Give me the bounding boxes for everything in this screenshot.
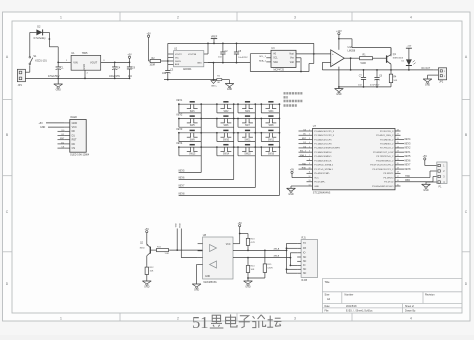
svg-text:510R: 510R [361, 63, 367, 65]
wire opamp V- to gnd [338, 67, 340, 89]
svg-text:18: 18 [397, 172, 399, 174]
switch SW16 [260, 145, 280, 156]
svg-text:8: 8 [309, 159, 310, 161]
wire U3 A0 to gnd rail [250, 54, 271, 72]
svg-text:MCP4725: MCP4725 [274, 68, 285, 71]
svg-text:+5V: +5V [145, 228, 150, 231]
svg-text:P1.6/RxD_3/XTAL2: P1.6/RxD_3/XTAL2 [314, 164, 334, 167]
switch SW15 [237, 145, 256, 156]
svg-text:SW15: SW15 [244, 154, 251, 156]
svg-text:8550: 8550 [140, 248, 146, 250]
watermark hei [210, 315, 224, 328]
svg-text:GND: GND [227, 88, 233, 91]
svg-text:10K: 10K [150, 271, 154, 273]
capacitor C3 106 [162, 67, 174, 80]
svg-text:ADR391: ADR391 [183, 68, 192, 71]
svg-text:GND: GND [144, 286, 150, 289]
zone dividers top strip [120, 12, 352, 21]
svg-text:13: 13 [309, 180, 311, 182]
switch SW10 [216, 130, 235, 141]
ground (U8) [192, 284, 201, 292]
transistor Q1 MJE13003 [374, 48, 404, 70]
svg-text:ADR: ADR [175, 63, 180, 66]
svg-text:KEY2: KEY2 [405, 148, 412, 150]
svg-text:KEY3: KEY3 [177, 129, 184, 131]
svg-text:P1.2/ADC2/SS/ECI/CMPO: P1.2/ADC2/SS/ECI/CMPO [314, 147, 340, 150]
svg-text:P1.5/ADC5/SCLK: P1.5/ADC5/SCLK [314, 159, 332, 162]
svg-text:-: - [332, 61, 333, 65]
switch SW9 [178, 130, 202, 141]
svg-text:SW6: SW6 [223, 125, 229, 127]
svg-text:SW8: SW8 [268, 125, 274, 127]
switch SW5 [178, 116, 202, 127]
wire D2 to C1/U1 node [43, 32, 59, 62]
net labels mcu left [299, 130, 307, 170]
svg-text:RXD: RXD [302, 168, 307, 170]
lower rail (ref gnd) [208, 62, 250, 64]
zone dividers bottom strip [120, 313, 352, 321]
capacitor C5 10uF/25V [234, 43, 248, 63]
bottom rail (output filter gnd) [339, 86, 391, 88]
svg-text:MAX485CPA: MAX485CPA [204, 281, 218, 284]
wire keypad column 3 [179, 104, 256, 187]
svg-text:SW2: SW2 [223, 111, 229, 113]
switch SW7 [237, 116, 256, 127]
reference U2 ADR391 [174, 48, 204, 71]
wire P1 pin4 to gnd [426, 182, 437, 184]
svg-text:SCL: SCL [273, 58, 278, 60]
wire U1 GND pin to bottom rail [84, 70, 86, 78]
svg-text:Drawn By:: Drawn By: [405, 310, 416, 313]
svg-text:P2.5/MOSI_2: P2.5/MOSI_2 [380, 139, 394, 141]
svg-text:GND+: GND+ [211, 85, 218, 87]
wire U8 gnd pin [197, 264, 198, 284]
resistor R13 4.7K [240, 234, 256, 251]
wire keypad column 4 [179, 104, 280, 195]
svg-text:DC: DC [72, 143, 76, 146]
svg-text:24: 24 [397, 146, 399, 148]
wire keypad column 2 [179, 104, 234, 179]
svg-text:VOUT3B: VOUT3B [188, 54, 197, 56]
switch SW6 [216, 116, 235, 127]
svg-text:SW1: SW1 [190, 111, 196, 113]
svg-text:D Schottky: D Schottky [34, 37, 47, 40]
svg-text:+12V: +12V [407, 46, 412, 48]
svg-text:+5V: +5V [127, 54, 132, 57]
capacitor C6 47uF/25V [370, 70, 383, 87]
svg-text:P3.5/T1/CLKO/CCP0_2: P3.5/T1/CLKO/CCP0_2 [370, 165, 394, 167]
svg-text:Vout: Vout [289, 53, 294, 56]
wire RXD drop [180, 223, 198, 258]
svg-text:P3.4/T0/ECI/CCP1_2: P3.4/T0/ECI/CCP1_2 [373, 169, 395, 171]
switch SW11 [237, 130, 256, 141]
svg-text:RX: RX [303, 248, 307, 250]
svg-text:RJ45: RJ45 [302, 279, 308, 282]
wire vref-rail drop to gnd rail [309, 43, 314, 71]
ground (power input) [54, 78, 63, 91]
svg-text:RST: RST [72, 139, 77, 142]
wire +12V rail to Q1 collector [339, 39, 391, 56]
op-amp U4A LM358 [331, 46, 356, 67]
wire 485-B [233, 256, 291, 259]
svg-text:17: 17 [397, 176, 399, 178]
net labels OLED data [58, 130, 66, 149]
svg-text:6: 6 [309, 151, 310, 153]
svg-text:28: 28 [397, 129, 399, 131]
power +5V (U8) [233, 222, 242, 244]
svg-text:10uF/25V: 10uF/25V [238, 57, 248, 59]
svg-text:GND: GND [205, 276, 210, 278]
transceiver U8 MAX485CPA [198, 234, 233, 284]
watermark tan [267, 316, 281, 328]
switch SW2 [216, 102, 235, 113]
svg-text:SW5: SW5 [190, 125, 196, 127]
svg-text:RXD: RXD [180, 223, 182, 228]
svg-text:SW7: SW7 [245, 125, 251, 127]
svg-text:10K: 10K [251, 269, 255, 271]
wire keypad row 3 [178, 132, 279, 134]
connector JP1 [17, 69, 25, 87]
capacitor C1 470uF/50V [48, 62, 64, 78]
wire keypad row 1 [178, 103, 279, 105]
wire U2 VOUT pin up to rail [204, 43, 209, 55]
svg-text:Sheet of: Sheet of [405, 305, 414, 308]
switch S1 KCD1-101 [29, 55, 47, 65]
svg-text:SW12: SW12 [268, 139, 275, 141]
svg-text:RJ1: RJ1 [302, 236, 307, 239]
zone dividers right strip [462, 100, 470, 252]
svg-text:2021/5/18: 2021/5/18 [346, 305, 357, 308]
svg-text:KEY1: KEY1 [405, 152, 412, 154]
svg-text:SDA_1: SDA_1 [300, 154, 307, 157]
diode D1 [401, 59, 415, 70]
svg-text:20: 20 [397, 163, 399, 165]
svg-text:NC: NC [303, 261, 307, 263]
svg-text:GND: GND [425, 84, 431, 87]
svg-text:P3.1/TxD: P3.1/TxD [384, 182, 394, 184]
svg-text:P5.4/RST/CMP-: P5.4/RST/CMP- [314, 173, 330, 175]
wire U1 VOUT to +5V rail [101, 61, 130, 63]
title block texts [325, 280, 436, 312]
svg-text:2: 2 [177, 15, 179, 19]
svg-text:KEY4: KEY4 [405, 139, 412, 141]
capacitor C9 104 [127, 62, 136, 79]
switch SW3 [237, 102, 256, 113]
switch SW4 [260, 102, 280, 113]
switch SW13 [178, 145, 202, 156]
ground (JP2) [423, 79, 432, 87]
svg-text:485-A: 485-A [274, 247, 280, 250]
svg-text:GND: GND [245, 286, 251, 289]
annotation chinese note [284, 93, 303, 105]
svg-text:P1.3/ADC3/MOSI: P1.3/ADC3/MOSI [314, 151, 332, 154]
diode D2 D Schottky [34, 26, 47, 41]
mcu U7 STC15W404AS [313, 125, 396, 194]
svg-text:SHDN: SHDN [175, 61, 181, 63]
svg-text:P3.6/INT2/RxD_2: P3.6/INT2/RxD_2 [376, 160, 394, 162]
svg-text:SW11: SW11 [245, 139, 252, 141]
svg-text:22: 22 [397, 155, 399, 157]
svg-text:P2.6/MISO_2: P2.6/MISO_2 [380, 143, 394, 145]
svg-text:KEY8: KEY8 [405, 169, 412, 171]
svg-text:GND: GND [288, 193, 294, 196]
wires OLED pins [65, 123, 70, 148]
svg-text:VOUT: VOUT [90, 61, 98, 65]
svg-text:KEY1: KEY1 [177, 100, 184, 102]
wire U3 Vdd stub [296, 61, 300, 63]
svg-text:1: 1 [60, 15, 62, 19]
wire Vout to opamp [296, 53, 331, 55]
svg-text:P2.0/RSTOUT_LOW: P2.0/RSTOUT_LOW [373, 152, 394, 154]
svg-text:P3.0/RxD/INT4/CLKO: P3.0/RxD/INT4/CLKO [372, 186, 394, 188]
svg-text:4: 4 [309, 142, 310, 144]
ground (P1) [422, 184, 431, 192]
svg-text:NC: NC [303, 257, 307, 259]
svg-text:4: 4 [410, 316, 412, 320]
power +12V (opamp) [336, 30, 342, 50]
svg-text:GND: GND [40, 126, 46, 129]
svg-text:File:: File: [325, 310, 330, 313]
transistor Q2 8550 [140, 243, 155, 266]
connector RJ1 RJ45 [297, 236, 317, 282]
svg-text:VREF: VREF [211, 35, 218, 38]
svg-text:47uF/25V: 47uF/25V [370, 84, 380, 86]
svg-text:Revision: Revision [425, 293, 435, 296]
wire U2 GND pin [204, 62, 214, 64]
svg-text:SW14: SW14 [223, 154, 230, 156]
wire JP2 pin2 to gnd [428, 75, 439, 79]
svg-text:10K: 10K [393, 80, 397, 82]
svg-text:GND: GND [314, 186, 319, 188]
svg-text:KEY2: KEY2 [177, 115, 184, 117]
svg-text:CS: CS [72, 147, 76, 150]
svg-text:JP1: JP1 [18, 84, 23, 87]
ground (Q2) [142, 276, 151, 289]
svg-text:OLED 0.96-12864: OLED 0.96-12864 [70, 154, 90, 157]
ground (opamp) [335, 89, 344, 97]
rail to gnd with inline resistor R1 0R [164, 76, 230, 85]
node VIN junction [57, 62, 59, 64]
svg-text:3: 3 [294, 15, 296, 19]
wire 485-A [233, 247, 287, 251]
watermark lun [252, 315, 265, 328]
svg-text:21: 21 [397, 159, 399, 161]
capacitor C2 104 [218, 43, 228, 63]
svg-text:51: 51 [192, 313, 209, 332]
svg-text:100R: 100R [150, 63, 156, 66]
svg-text:10: 10 [309, 167, 311, 169]
power +5V (ref section) [146, 33, 151, 62]
svg-text:SW13: SW13 [189, 154, 196, 156]
capacitor C7 104 [358, 70, 366, 87]
svg-text:120R: 120R [267, 268, 273, 270]
svg-text:Size: Size [325, 293, 330, 296]
svg-text:GND: GND [423, 189, 429, 192]
svg-text:11: 11 [309, 172, 311, 174]
top rail VREF net [168, 42, 314, 44]
net labels mcu right KEY [401, 139, 412, 171]
resistor R2 100R [149, 57, 162, 67]
power +5V (mcu) [290, 169, 307, 178]
feedback wire opamp [322, 57, 358, 70]
svg-text:DC OUT: DC OUT [422, 68, 431, 70]
resistor R1 510R [358, 53, 374, 64]
svg-text:4.7K: 4.7K [251, 242, 256, 244]
svg-text:GND: GND [82, 64, 86, 70]
wire U3 Vss down [296, 58, 301, 72]
svg-text:JP2: JP2 [439, 81, 444, 84]
svg-text:26: 26 [397, 138, 399, 140]
svg-text:KEY4: KEY4 [177, 143, 184, 145]
wire mcu TxD to P1 [401, 171, 437, 178]
switch SW14 [216, 145, 235, 156]
svg-text:+5V: +5V [146, 33, 151, 36]
power port VREF [211, 35, 218, 44]
svg-text:GND: GND [336, 93, 342, 96]
svg-text:KEY7: KEY7 [179, 186, 186, 188]
ground (ref section) [225, 80, 234, 92]
svg-text:1: 1 [309, 129, 310, 131]
svg-text:KEY8: KEY8 [179, 194, 186, 196]
resistor R4 10K [389, 70, 397, 87]
svg-text:3: 3 [309, 138, 310, 140]
svg-text:VCC: VCC [72, 126, 77, 129]
connector JP2 [438, 68, 446, 84]
ground label (OLED) [40, 126, 65, 129]
wire S1 to diode D2 [30, 32, 37, 56]
svg-text:Date:: Date: [325, 305, 331, 308]
connector P1 [437, 162, 447, 188]
wires RJ45 A-net routing [286, 243, 298, 273]
bottom rail (power gnd) [25, 78, 130, 80]
svg-text:14: 14 [309, 184, 311, 186]
svg-text:SDA: SDA [273, 61, 278, 64]
svg-text:2: 2 [177, 316, 179, 320]
power +5V (regulator output) [127, 54, 132, 63]
title block [322, 278, 462, 313]
svg-text:IO: IO [303, 253, 306, 255]
svg-text:23: 23 [397, 151, 399, 153]
svg-text:KEY5: KEY5 [405, 156, 412, 158]
resistor R14 10K [246, 258, 255, 274]
svg-text:Number: Number [345, 293, 354, 296]
svg-text:+5V: +5V [39, 122, 44, 125]
svg-text:P2.4/ECI_3/SS_2: P2.4/ECI_3/SS_2 [376, 135, 394, 137]
mcu right pin stubs and numbers [395, 129, 401, 186]
zone numbers bottom [60, 316, 412, 320]
svg-text:7: 7 [309, 155, 310, 157]
ground GND+ (analog) [211, 81, 218, 88]
watermark dian [226, 314, 237, 327]
svg-text:+12V: +12V [336, 30, 342, 33]
svg-text:MJE13003: MJE13003 [393, 57, 404, 59]
svg-text:P3.7/INT3/TxD_2: P3.7/INT3/TxD_2 [376, 156, 394, 158]
svg-text:P1.4/ADC4/MISO: P1.4/ADC4/MISO [314, 155, 331, 158]
svg-text:GND: GND [194, 289, 200, 292]
svg-text:SCL_1: SCL_1 [300, 151, 307, 153]
svg-text:VOUT2: VOUT2 [175, 54, 183, 56]
wire node to U1 VIN [58, 61, 71, 63]
wire keypad column 1 [179, 104, 202, 172]
svg-text:U1: U1 [71, 51, 75, 55]
zone letters left [6, 55, 9, 286]
svg-text:SW9: SW9 [190, 139, 196, 141]
svg-text:TXD: TXD [405, 176, 410, 178]
svg-text:P1.1/ADC1/CCP0: P1.1/ADC1/CCP0 [314, 142, 332, 145]
svg-text:SCL_1: SCL_1 [259, 56, 266, 58]
svg-text:SDA_1: SDA_1 [259, 59, 267, 62]
resistor R12 10K [145, 266, 154, 276]
power +5V (P1) [423, 155, 437, 165]
svg-text:KEY6: KEY6 [179, 178, 186, 180]
mcu left pin stubs and numbers [307, 129, 313, 186]
svg-text:P1.7/ADC7/CCP2_3: P1.7/ADC7/CCP2_3 [314, 134, 335, 137]
svg-text:P3.3/INT1: P3.3/INT1 [383, 173, 394, 175]
svg-text:KCD1-101: KCD1-101 [35, 60, 47, 63]
svg-text:IO: IO [303, 265, 306, 267]
svg-text:P2.7/SCLK_2: P2.7/SCLK_2 [380, 148, 394, 150]
switch SW8 [260, 116, 280, 127]
svg-text:16: 16 [397, 180, 399, 182]
svg-text:SW3: SW3 [245, 111, 251, 113]
svg-text:VIN: VIN [73, 61, 77, 65]
svg-text:NC: NC [303, 273, 307, 275]
svg-text:LM358: LM358 [348, 50, 356, 53]
svg-text:P5.5/CMP+: P5.5/CMP+ [314, 182, 326, 184]
svg-text:KEY3: KEY3 [405, 143, 412, 145]
svg-text:P2.3/CCP0_3: P2.3/CCP0_3 [380, 131, 394, 133]
svg-text:P3.2/INT0: P3.2/INT0 [383, 177, 394, 179]
svg-text:RXD: RXD [405, 180, 410, 182]
svg-text:2: 2 [309, 134, 310, 136]
power +5V label (OLED) [39, 122, 65, 125]
svg-text:STC15W404AS: STC15W404AS [313, 192, 331, 195]
svg-text:GND: GND [56, 89, 62, 92]
svg-text:P1.6/ADC6/CCP1_3: P1.6/ADC6/CCP1_3 [314, 130, 335, 133]
svg-text:VCC: VCC [314, 177, 319, 179]
svg-text:9: 9 [309, 163, 310, 165]
svg-text:27: 27 [397, 134, 399, 136]
svg-text:VCC: VCC [226, 244, 231, 246]
svg-text:1: 1 [60, 316, 62, 320]
svg-text:15: 15 [397, 184, 399, 186]
wire TXD drop [176, 223, 178, 250]
svg-text:12: 12 [309, 176, 311, 178]
svg-text:GND: GND [197, 62, 202, 64]
wire JP1 pin1 to switch S1 [25, 65, 29, 72]
zone letters right [465, 55, 468, 286]
svg-text:E:\51\..\..\Sheet1.SchDoc: E:\51\..\..\Sheet1.SchDoc [346, 310, 373, 313]
svg-text:GND: GND [72, 122, 78, 125]
wire R2 to U2 pin bus [162, 43, 174, 67]
svg-text:+5V: +5V [423, 155, 428, 158]
wire keypad row 4 [178, 146, 279, 148]
regulator U1 7805 [66, 51, 105, 74]
svg-text:+: + [332, 52, 334, 56]
ground (RS485) [244, 274, 253, 289]
zone dividers left strip [3, 100, 13, 252]
wires U3 SCL SDA stubs [266, 58, 271, 62]
svg-text:7805: 7805 [82, 51, 88, 55]
svg-text:1.0K: 1.0K [165, 253, 170, 255]
svg-text:TXD: TXD [302, 163, 307, 165]
svg-text:Title: Title [325, 280, 331, 284]
capacitor C4 100uF/25V [109, 62, 121, 79]
svg-text:P1.0/ADC0/CCP1: P1.0/ADC0/CCP1 [314, 138, 332, 141]
wire ref-gnd drop [213, 63, 215, 80]
svg-text:+5V: +5V [238, 222, 243, 225]
svg-text:3: 3 [294, 316, 296, 320]
